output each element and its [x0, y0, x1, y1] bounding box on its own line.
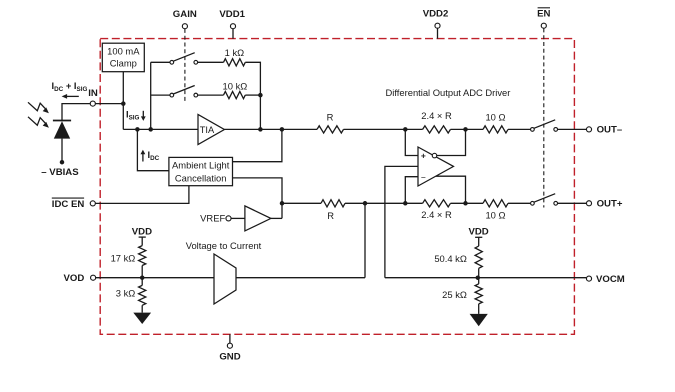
svg-text:OUT–: OUT–	[597, 125, 623, 136]
svg-text:Voltage to Current: Voltage to Current	[186, 240, 262, 251]
svg-text:Clamp: Clamp	[110, 58, 137, 69]
svg-text:Differential Output ADC Driver: Differential Output ADC Driver	[386, 87, 511, 98]
svg-text:IN: IN	[88, 88, 98, 99]
svg-text:−: −	[421, 172, 426, 182]
svg-text:VDD: VDD	[132, 227, 152, 238]
svg-text:R: R	[327, 112, 334, 123]
svg-text:VDD2: VDD2	[423, 9, 449, 20]
svg-text:GAIN: GAIN	[173, 9, 197, 20]
svg-text:IDC EN: IDC EN	[52, 199, 85, 210]
svg-text:10 Ω: 10 Ω	[485, 209, 505, 220]
svg-text:VOCM: VOCM	[596, 274, 625, 285]
svg-text:2.4 × R: 2.4 × R	[421, 209, 452, 220]
svg-text:VDD: VDD	[468, 227, 488, 238]
svg-text:VDD1: VDD1	[219, 9, 245, 20]
svg-text:TIA: TIA	[200, 125, 215, 135]
svg-text:+: +	[421, 151, 426, 161]
svg-text:17 kΩ: 17 kΩ	[111, 253, 136, 264]
svg-text:100 mA: 100 mA	[107, 45, 140, 56]
svg-text:50.4 kΩ: 50.4 kΩ	[434, 253, 467, 264]
svg-text:1 kΩ: 1 kΩ	[225, 47, 245, 58]
svg-text:10 kΩ: 10 kΩ	[223, 81, 248, 92]
svg-text:R: R	[327, 210, 334, 221]
svg-text:Ambient Light: Ambient Light	[172, 160, 230, 171]
svg-text:EN: EN	[537, 9, 550, 20]
svg-text:VREF: VREF	[200, 213, 225, 224]
svg-text:– VBIAS: – VBIAS	[41, 167, 79, 178]
svg-text:25 kΩ: 25 kΩ	[442, 289, 467, 300]
svg-text:10 Ω: 10 Ω	[485, 112, 505, 123]
svg-text:VOD: VOD	[64, 273, 85, 284]
svg-text:GND: GND	[219, 351, 240, 362]
svg-text:2.4 × R: 2.4 × R	[421, 110, 452, 121]
svg-text:Cancellation: Cancellation	[175, 173, 227, 184]
svg-text:3 kΩ: 3 kΩ	[116, 287, 136, 298]
svg-text:OUT+: OUT+	[597, 199, 623, 210]
